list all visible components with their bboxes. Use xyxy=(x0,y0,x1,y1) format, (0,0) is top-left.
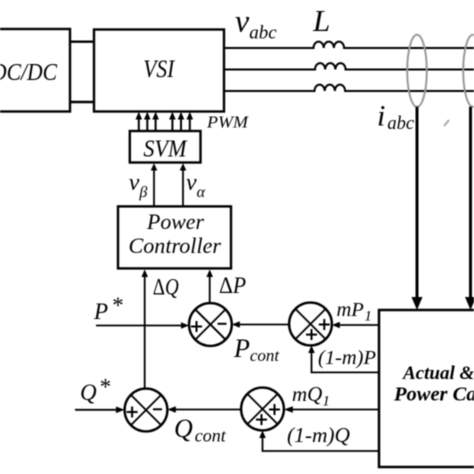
wire v_beta into SVM xyxy=(153,170,155,206)
bus wire bottom DC/DC to VSI xyxy=(69,101,95,103)
summing junction Q (S2) xyxy=(125,389,168,432)
wire multiplier Q to summer Q xyxy=(175,409,241,411)
sensor ellipse 1 xyxy=(407,35,427,107)
svg-text:Power Calc: Power Calc xyxy=(393,383,474,405)
svg-text:SVM: SVM xyxy=(143,137,188,163)
multiplier P (M1) xyxy=(289,303,332,346)
stray gray mark xyxy=(444,120,449,126)
svg-text:Actual &: Actual & xyxy=(402,363,474,384)
svg-text:DC/DC: DC/DC xyxy=(0,60,58,86)
measurement feed wire 2 xyxy=(469,107,472,298)
svg-text:(1-m)P: (1-m)P xyxy=(318,348,376,369)
summing junction P (S1) xyxy=(189,303,232,346)
wire multiplier P to summer P xyxy=(239,324,289,326)
block DC/DC converter xyxy=(0,29,70,112)
wire phase b with inductor Lb xyxy=(224,63,474,69)
block Actual & Power Calculation xyxy=(379,310,474,467)
svg-text:ΔP: ΔP xyxy=(219,273,246,298)
svg-text:ΔQ: ΔQ xyxy=(153,274,179,299)
wire phase c with inductor Lc xyxy=(224,85,474,91)
wire dQ into Power Controller xyxy=(144,276,146,389)
wire (1-m)P elbow into multiplier P xyxy=(312,352,380,372)
svg-text:(1-m)Q: (1-m)Q xyxy=(287,423,350,447)
block SVM modulator xyxy=(130,131,201,163)
block Power Controller xyxy=(118,206,231,268)
wire mQ1 from power-cal block xyxy=(292,409,379,411)
PWM gate arrows (6) from SVM to VSI xyxy=(136,112,194,131)
svg-text:L: L xyxy=(312,3,330,38)
multiplier Q (M2) xyxy=(241,388,284,431)
bus wire top DC/DC to VSI xyxy=(69,41,95,43)
measurement feed wire 1 (i_abc) xyxy=(416,107,419,298)
svg-text:Controller: Controller xyxy=(129,233,222,258)
wire (1-m)Q elbow into multiplier Q xyxy=(263,437,380,451)
wire v_alpha into SVM xyxy=(182,170,184,206)
svg-text:VSI: VSI xyxy=(143,56,175,83)
svg-text:Power: Power xyxy=(146,209,204,234)
svg-text:PWM: PWM xyxy=(206,113,249,132)
block VSI U1 xyxy=(94,30,224,112)
sensor ellipse 2 xyxy=(463,35,474,107)
wire mP1 from power-cal block xyxy=(339,324,379,326)
wire dP into Power Controller xyxy=(209,276,211,303)
wire P* into summer xyxy=(96,325,182,327)
wire phase a with inductor La xyxy=(224,42,474,48)
wire Q* into summer Q xyxy=(75,409,117,411)
